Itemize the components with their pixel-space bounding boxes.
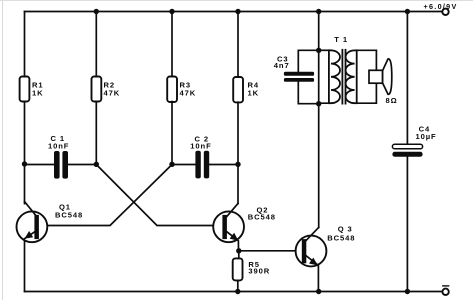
svg-text:8Ω: 8Ω: [386, 96, 398, 105]
left rail upper segment: [24, 12, 26, 77]
svg-text:+6.0/9V: +6.0/9V: [424, 2, 458, 11]
capacitor C2: [195, 151, 209, 179]
node Q2 emitter / R5 / Q3 base: [236, 248, 241, 253]
svg-text:1K: 1K: [32, 89, 44, 98]
capacitor C3: [284, 72, 314, 82]
transformer T1 primary outer return: [328, 50, 330, 103]
top supply rail: [25, 11, 443, 13]
svg-text:BC548: BC548: [55, 211, 83, 220]
svg-text:47K: 47K: [104, 89, 121, 98]
resistor R4: [233, 77, 243, 102]
node Q3 emitter bottom rail: [316, 289, 321, 294]
node C2 right: [235, 162, 240, 167]
terminal - bottom right: [442, 289, 448, 295]
svg-text:10nF: 10nF: [190, 141, 211, 150]
node R5 bottom rail: [235, 289, 240, 294]
wire C3 branch bottom: [298, 82, 318, 104]
node top R4: [235, 9, 240, 14]
node C2 left: [169, 162, 174, 167]
wire C3 branch top: [298, 50, 318, 72]
node top C4: [405, 9, 410, 14]
speaker LS1 cone: [383, 59, 392, 94]
transformer T1 secondary outer return: [356, 50, 358, 103]
wire C1 right lead: [68, 164, 96, 166]
svg-text:BC548: BC548: [327, 233, 355, 242]
wire top rail to T1/Q3 collector column: [318, 12, 320, 228]
speaker LS1 body: [369, 70, 383, 83]
scan border left: [2, 0, 4, 300]
wire R3 top: [171, 12, 173, 77]
svg-text:10µF: 10µF: [416, 132, 437, 141]
wire Q2 emitter node to Q3 base: [239, 250, 296, 252]
bottom rail: [25, 291, 443, 293]
wire C2 right lead: [209, 164, 238, 166]
wire R5 bottom: [237, 280, 239, 291]
wire cross-couple C2 node to Q1 base: [39, 165, 172, 226]
terminal + top right: [442, 9, 448, 15]
node C4 bottom rail: [405, 289, 410, 294]
resistor R2: [92, 77, 102, 102]
wire R1 bottom to C1 node: [24, 102, 26, 204]
wire cross-couple C1 node to Q2 base: [96, 165, 222, 226]
wire Q1 emitter to bottom rail: [24, 238, 26, 291]
transformer T1 primary winding: [331, 50, 340, 103]
wire C2 left lead: [172, 164, 196, 166]
node C1 right: [94, 162, 99, 167]
svg-text:390R: 390R: [248, 266, 270, 275]
node T1 top / C3: [316, 48, 321, 53]
transistor Q1: [17, 211, 48, 242]
transistor Q2: [213, 211, 244, 242]
svg-text:T 1: T 1: [334, 35, 348, 44]
transformer T1 core: [341, 50, 343, 104]
resistor R1: [20, 77, 30, 102]
transistor Q3: [296, 236, 327, 267]
scan border top: [0, 0, 473, 2]
node top R2: [94, 9, 99, 14]
resistor R3: [167, 77, 177, 103]
svg-text:1K: 1K: [248, 89, 260, 98]
wire T1 secondary to speaker top: [355, 50, 377, 70]
wire C1 left lead: [25, 164, 55, 166]
svg-text:4n7: 4n7: [274, 61, 290, 70]
svg-text:10nF: 10nF: [48, 142, 69, 151]
minus label mark: [443, 285, 449, 287]
svg-text:47K: 47K: [180, 89, 197, 98]
node C1 left: [22, 161, 27, 166]
wire speaker bottom to T1 secondary: [355, 83, 377, 103]
transformer T1 secondary winding: [346, 50, 355, 103]
capacitor C1: [54, 151, 68, 179]
svg-text:BC548: BC548: [248, 212, 276, 221]
wire R4 bottom through C2 node to Q2 collector: [237, 102, 239, 203]
node top T1: [316, 9, 321, 14]
wire R3 bottom to C2 node: [171, 102, 173, 165]
wire R4 top: [237, 12, 239, 78]
wire Q2 emitter node to R5: [238, 251, 240, 259]
wire Q3 emitter to bottom rail: [317, 265, 319, 292]
wire right rail upper (to C4): [406, 12, 408, 145]
wire right rail lower: [406, 157, 408, 292]
transformer T1 primary lead bottom: [319, 102, 331, 105]
svg-text:Q 3: Q 3: [338, 225, 353, 234]
wire R2 top: [95, 12, 97, 77]
node top R3: [169, 9, 174, 14]
transformer T1 primary lead top: [319, 49, 331, 51]
resistor R5: [233, 258, 243, 280]
capacitor C4 electrolytic: [392, 144, 422, 149]
wire R2 bottom to C1 node: [95, 102, 97, 165]
node T1 bottom / C3: [316, 101, 321, 106]
